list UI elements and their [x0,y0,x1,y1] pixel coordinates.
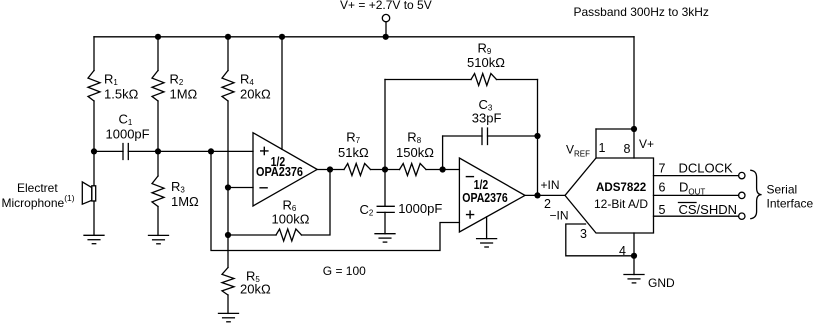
node A R7/R8/C2/R9 [382,166,388,172]
node U2 output +IN [534,192,540,198]
wire R3 to ground [157,207,159,236]
node signal R2/R3 [155,148,161,154]
capacitor C1 [123,144,128,160]
svg-text:2: 2 [544,197,551,211]
svg-text:8: 8 [624,142,631,156]
wire R6 left lead [228,234,276,236]
resistor R1 [88,71,100,102]
wire ADC pin 6 [654,194,739,196]
svg-text:33pF: 33pF [472,110,502,125]
node -input U1 [225,184,231,190]
terminal CS/SHDN [739,213,745,219]
wire rail drop to ADC pin 8 [633,37,635,158]
svg-text:7: 7 [659,162,666,176]
ground R5 [219,312,239,314]
wire R2 column top [157,37,159,71]
node U2 -input R8/C3/R9 [440,166,446,172]
wire U1 supply from rail [281,37,283,150]
wire R9 right lead [497,79,538,81]
svg-text:1MΩ: 1MΩ [170,87,198,102]
svg-text:R2: R2 [170,72,184,88]
wire R9/C3 column to output [537,80,539,196]
node rail-V+ tap [383,34,389,40]
svg-text:3: 3 [580,227,587,241]
wire node A down to C2 [384,170,386,207]
wire R8 to U2 -input [426,169,459,171]
node rail-U1 supply [279,34,285,40]
overline CS [679,202,697,204]
svg-text:V+: V+ [639,137,654,151]
resistor R2 [152,71,164,102]
wire ADC pin 4 to ground [633,233,635,275]
wire R7 to R8 node A [371,169,400,171]
svg-text:51kΩ: 51kΩ [338,145,369,160]
svg-text:Electret: Electret [17,181,58,195]
capacitor C3 [482,128,488,145]
resistor R7 [344,164,371,176]
ground microphone [84,234,104,236]
node -IN/GND [631,253,637,259]
ground R3 [149,234,169,236]
wire R4 column top [227,37,229,71]
svg-text:R4: R4 [240,72,254,88]
terminal DOUT [739,192,745,198]
wire signal node to R3 [157,151,159,176]
node C3-R9 right [534,133,540,139]
svg-text:R8: R8 [407,130,421,146]
svg-text:1000pF: 1000pF [398,201,442,216]
svg-text:OPA2376: OPA2376 [462,190,508,205]
op-amp U1 1/2 OPA2376 [253,133,317,206]
U1 + input sign [260,147,269,156]
wire -input of U1 [228,187,253,189]
svg-text:ADS7822: ADS7822 [596,181,646,194]
wire C3 left lead [443,135,482,137]
resistor R8 [400,164,427,176]
svg-text:Microphone(1): Microphone(1) [2,193,75,210]
resistor R9 [471,74,497,86]
svg-text:DCLOCK: DCLOCK [679,161,734,176]
wire R9 left lead [385,79,471,81]
svg-text:DOUT: DOUT [679,180,705,197]
svg-text:100kΩ: 100kΩ [272,212,310,227]
wire R6 right lead to U1 output [302,170,331,236]
wire bias line to U2 +input [211,151,459,250]
node U1 output feedback [327,166,333,172]
wire R5 to ground [227,295,229,313]
svg-text:V+ = +2.7V to 5V: V+ = +2.7V to 5V [340,0,432,12]
wire U2 ground stub [486,217,488,239]
resistor R3 [152,176,164,207]
op-amp U2 1/2 OPA2376 [459,158,525,232]
svg-text:R3: R3 [171,179,185,195]
svg-text:12-Bit A/D: 12-Bit A/D [594,197,648,211]
wire R1 to microphone [93,101,95,186]
wire VREF to V+ jumper [596,128,634,130]
svg-text:R1: R1 [104,72,118,88]
svg-text:R9: R9 [478,41,492,57]
svg-text:5: 5 [659,203,666,217]
svg-text:Interface: Interface [767,196,813,210]
svg-text:−IN: −IN [550,209,569,223]
V+ supply terminal [382,14,389,21]
node mic-C1 [91,148,97,154]
wire R2 to signal node [157,101,159,151]
svg-text:OPA2376: OPA2376 [256,164,303,179]
terminal DCLOCK [739,172,745,178]
node signal bias tap [208,148,214,154]
resistor R5 [222,268,234,296]
svg-text:C2: C2 [360,202,374,218]
svg-text:20kΩ: 20kΩ [240,87,271,102]
U2 - input sign [466,176,474,178]
wire ADC pin 7 [654,175,739,177]
svg-text:1.5kΩ: 1.5kΩ [104,87,139,102]
serial interface brace [750,170,761,219]
svg-text:1MΩ: 1MΩ [171,194,199,209]
svg-text:6: 6 [659,181,666,195]
svg-text:4: 4 [619,244,626,258]
svg-text:VREF: VREF [566,143,590,159]
wire C3 tap from -input node [442,136,444,170]
ADC U3 ADS7822 body [565,158,654,233]
svg-text:CS/SHDN: CS/SHDN [679,202,738,217]
wire R4 to R5 column [227,101,229,268]
svg-text:510kΩ: 510kΩ [467,55,505,70]
wire signal line to U1 +input [128,150,253,152]
svg-text:G = 100: G = 100 [323,264,366,278]
wire C3 right lead [488,135,538,137]
wire -IN loop to pin 4 node [566,224,634,256]
ground C2 [375,233,395,235]
resistor R6 [276,229,302,241]
wire U2 output to ADC +IN [525,194,565,196]
node rail-R4 [225,34,231,40]
ground ADC GND [624,274,644,276]
electret microphone [82,182,92,204]
wire ADC pin1 stub [595,129,597,158]
ground U2 [477,238,497,240]
capacitor C2 [377,206,394,212]
svg-text:C1: C1 [119,112,133,128]
node rail-R2 [155,34,161,40]
svg-text:20kΩ: 20kΩ [240,282,271,297]
wire R1 column top [93,37,95,71]
svg-text:Passband 300Hz to 3kHz: Passband 300Hz to 3kHz [574,5,709,19]
wire node A up to R9 [384,80,386,170]
resistor R4 [222,71,234,102]
wire C2 to ground [384,212,386,233]
svg-text:1000pF: 1000pF [106,127,150,142]
wire C1 left lead [94,150,123,152]
svg-text:1: 1 [599,141,606,155]
wire ADC pin 5 [654,215,739,217]
U2 + input sign [466,210,474,218]
svg-text:R7: R7 [346,130,360,146]
wire V+ top rail [94,36,634,38]
svg-text:+IN: +IN [541,178,560,192]
node R6 left [225,232,231,238]
svg-text:Serial: Serial [767,183,798,197]
wire microphone to ground [93,201,95,235]
svg-text:150kΩ: 150kΩ [396,145,434,160]
U1 - input sign [259,187,267,189]
wire U1 output to R7 [317,169,344,171]
svg-text:GND: GND [648,276,675,290]
node VREF-V+ jumper [631,126,637,132]
